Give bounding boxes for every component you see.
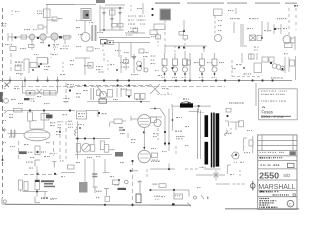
svg-text:2550: 2550 xyxy=(259,171,279,180)
svg-text:S/D: S/D xyxy=(283,173,290,178)
svg-text:MARSHALL: MARSHALL xyxy=(258,182,295,191)
